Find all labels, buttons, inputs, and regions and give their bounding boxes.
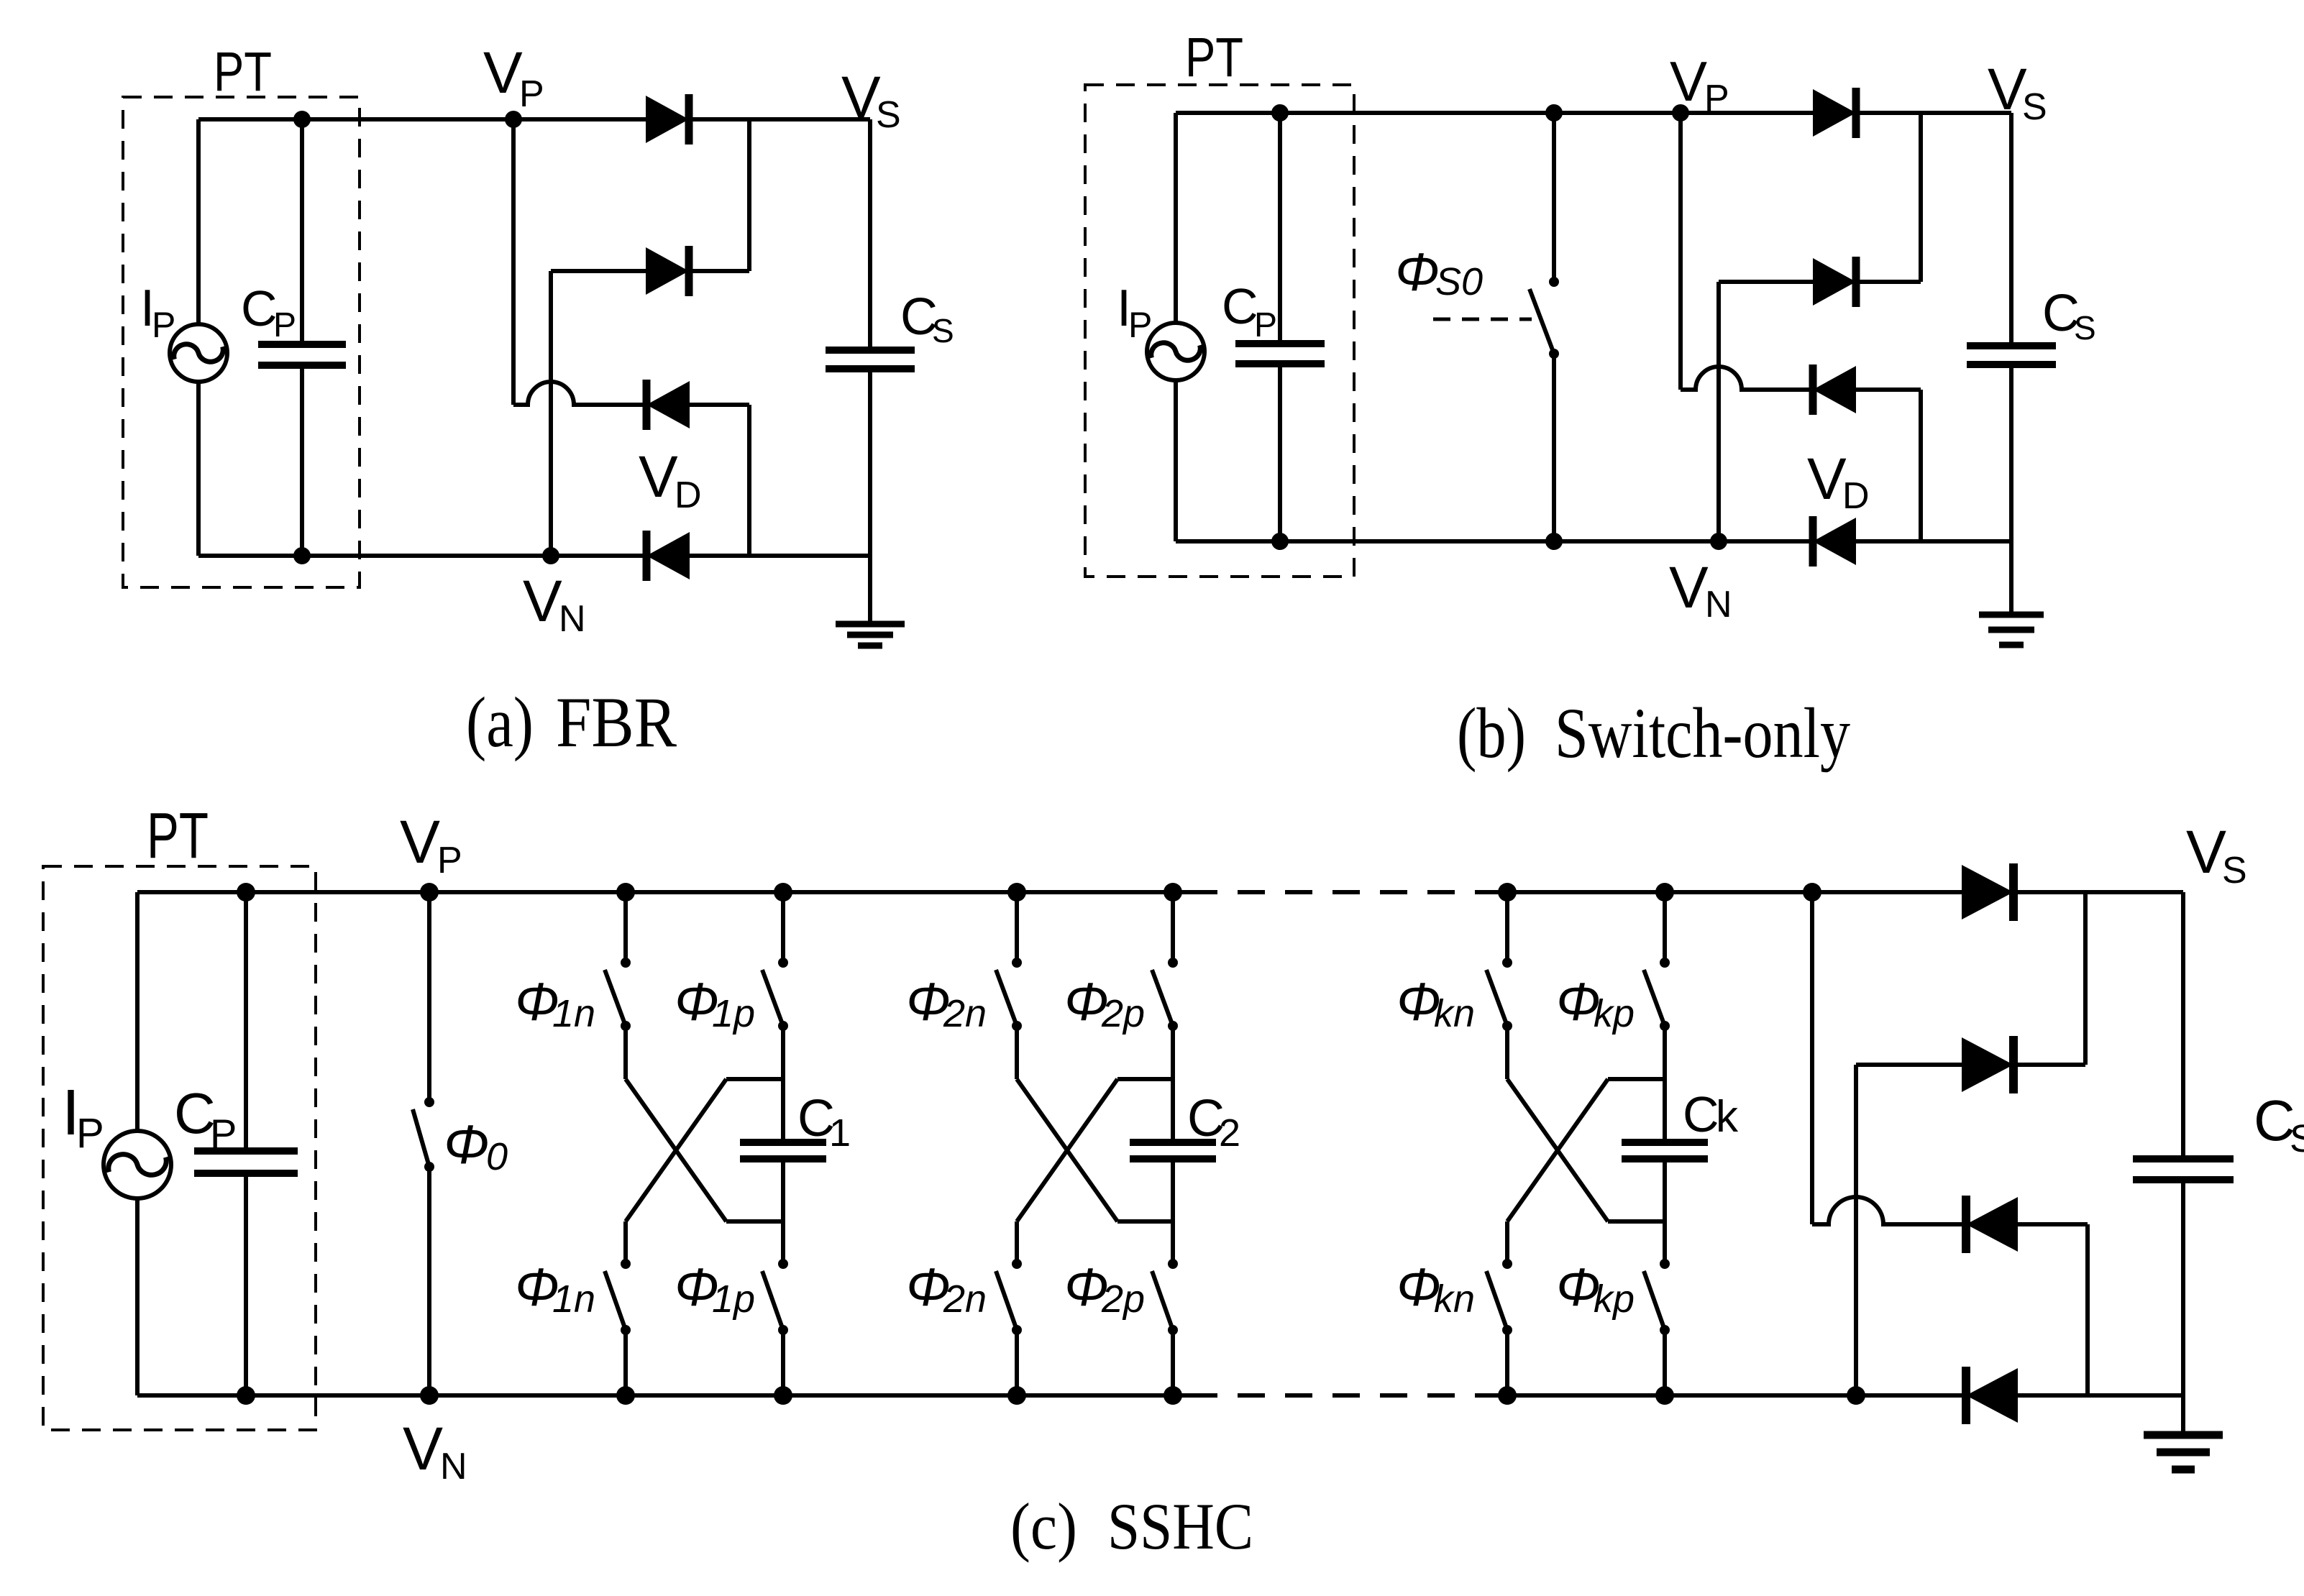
wire cross bottom horiz to cap 1 c [726, 1219, 783, 1224]
wire cross diagonal A 2 c [1017, 1079, 1117, 1221]
svg-text:PT: PT [214, 41, 272, 103]
label Vp b [1670, 50, 1729, 119]
label Cp b [1222, 278, 1277, 344]
node 1n bottom rail c [616, 1386, 635, 1405]
wire top rail b [1176, 111, 2011, 115]
wire D2 row b [1719, 280, 1921, 284]
node switch top b [1545, 104, 1563, 121]
svg-text:V: V [639, 444, 678, 510]
svg-text:(a): (a) [466, 682, 534, 762]
svg-text:P: P [437, 840, 462, 881]
label Vn c [403, 1415, 467, 1487]
wire n-col to lower switch 1 c [623, 1221, 628, 1264]
svg-text:S: S [932, 312, 954, 349]
wire cross bottom horiz to cap k c [1608, 1219, 1665, 1224]
label phi2n upper c [906, 972, 987, 1035]
circuit (a) FBR section [123, 40, 954, 762]
wire D2 row a [551, 269, 749, 273]
capacitor Cs a [826, 350, 915, 369]
wire Cp lead top a [300, 119, 304, 344]
wire cross top horiz to cap k c [1608, 1077, 1665, 1081]
diode D3 b [1813, 364, 1856, 415]
node PT bottom c [237, 1386, 255, 1405]
svg-text:2: 2 [1219, 1111, 1240, 1155]
diode D1 a [646, 94, 689, 145]
svg-text:kp: kp [1594, 1278, 1635, 1321]
caption (a) FBR [466, 682, 677, 762]
dashed control line phiS0 b [1433, 318, 1532, 321]
wire bottom rail a [198, 554, 870, 558]
wire bottom rail c left [137, 1393, 1190, 1398]
svg-text:P: P [519, 73, 544, 115]
wire Vp vertical a [511, 119, 516, 405]
node kp top rail c [1655, 883, 1674, 902]
svg-text:Switch-only: Switch-only [1555, 693, 1850, 773]
svg-text:P: P [152, 305, 175, 345]
svg-text:P: P [1704, 78, 1729, 119]
wire bottom rail b [1176, 539, 2011, 544]
diode D8 c [1966, 1367, 2018, 1424]
svg-text:2p: 2p [1101, 1278, 1145, 1321]
current source Ip b [1147, 323, 1204, 380]
switch phi2n upper c [996, 892, 1022, 1079]
switch phi2n lower c [996, 1259, 1022, 1395]
label Vs a [841, 65, 901, 136]
node Vp a [505, 111, 522, 128]
node PT bottom a [293, 547, 311, 564]
svg-text:SSHC: SSHC [1107, 1490, 1253, 1563]
label Vp a [483, 40, 544, 115]
capacitor Cp b [1235, 344, 1325, 364]
switch phi1p upper c [762, 892, 788, 1079]
svg-text:k: k [1716, 1092, 1739, 1142]
label Vs c [2186, 818, 2247, 891]
wire cap top lead k c [1663, 1079, 1667, 1142]
wire Vs vertical c [2181, 892, 2185, 1159]
wire Cp lead bottom c [244, 1173, 248, 1395]
node Vp c [420, 883, 439, 902]
wire D1-D2 junction vertical b [1919, 113, 1923, 282]
diode D3 a [646, 380, 690, 430]
node bottom rail bridge c [1847, 1386, 1865, 1405]
svg-text:V: V [523, 569, 562, 634]
svg-text:kn: kn [1434, 992, 1475, 1035]
svg-text:1p: 1p [712, 992, 755, 1035]
wire Ip lead bottom a [196, 380, 201, 556]
label Vd b [1807, 446, 1870, 517]
svg-text:N: N [1705, 584, 1732, 625]
svg-text:P: P [273, 306, 296, 344]
diode D7 c [1966, 1196, 2018, 1253]
wire cross top horiz to cap 2 c [1117, 1077, 1173, 1081]
PT dashed box a [123, 97, 360, 587]
label Vs b [1988, 57, 2047, 128]
capacitor Cs b [1967, 346, 2056, 364]
svg-text:P: P [76, 1110, 104, 1157]
capacitor Cs c [2133, 1159, 2234, 1180]
wire cap bottom lead k c [1663, 1159, 1667, 1221]
svg-text:V: V [2186, 818, 2226, 886]
node Vn a [542, 547, 559, 564]
ground c [2144, 1435, 2223, 1469]
svg-text:C: C [1222, 278, 1258, 334]
svg-text:V: V [1988, 57, 2027, 122]
diode D2 a [646, 246, 689, 296]
label Cs c [2254, 1088, 2304, 1160]
wire Vp-to-D3 with hop b [1681, 367, 1921, 390]
label C1 c [797, 1090, 851, 1155]
svg-text:1p: 1p [712, 1278, 755, 1321]
capacitor Cp a [258, 344, 346, 365]
wire D2 anode drop to Vn a [549, 271, 553, 556]
svg-text:PT: PT [147, 800, 209, 872]
svg-text:N: N [440, 1446, 467, 1487]
svg-text:1: 1 [829, 1111, 851, 1155]
label Ip c [62, 1077, 104, 1157]
node phi0 bottom c [420, 1386, 439, 1405]
node 2n top rail c [1007, 883, 1026, 902]
svg-text:S: S [876, 94, 901, 136]
wire Vs vertical a [868, 119, 872, 350]
wire Vp vertical b [1678, 113, 1683, 390]
label phi1n upper c [515, 972, 595, 1035]
svg-text:P: P [210, 1111, 237, 1156]
node 2p top rail c [1164, 883, 1182, 902]
capacitor Ck c [1622, 1142, 1708, 1159]
label Cs a [900, 288, 954, 349]
wire Cp lead bottom b [1278, 364, 1282, 541]
ground a [836, 624, 905, 646]
label phi2n lower c [906, 1257, 987, 1321]
wire cap bottom lead 2 c [1171, 1159, 1175, 1221]
diode D4 a [646, 531, 690, 581]
wire Cs bottom lead c [2181, 1180, 2185, 1395]
wire n-col to lower switch 2 c [1015, 1221, 1019, 1264]
switch phi1n lower c [605, 1259, 631, 1395]
label phikn upper c [1396, 972, 1475, 1035]
wire D7 anode vertical c [2085, 1224, 2090, 1395]
node 1n top rail c [616, 883, 635, 902]
switch phikn lower c [1486, 1259, 1512, 1395]
svg-text:D: D [675, 474, 702, 516]
wire D1-D2 junction vertical a [747, 119, 751, 271]
switch phiS0 b [1530, 113, 1559, 541]
label Ip a [140, 280, 175, 345]
diode D4 b [1813, 516, 1856, 567]
label phi2p upper c [1064, 972, 1145, 1035]
label phi1p upper c [675, 972, 755, 1035]
capacitor C1 c [740, 1142, 826, 1159]
svg-text:N: N [559, 598, 586, 640]
capacitor C2 c [1130, 1142, 1216, 1159]
label Cp c [174, 1081, 237, 1156]
PT dashed box b [1085, 85, 1354, 577]
switch phikn upper c [1486, 892, 1512, 1079]
wire Ip lead bottom b [1174, 380, 1178, 541]
wire p-col to lower switch 2 c [1171, 1221, 1175, 1264]
switch phi1n upper c [605, 892, 631, 1079]
wire D6 left vertical c [1854, 1065, 1858, 1395]
svg-text:D: D [1842, 475, 1870, 517]
node 2n bottom rail c [1007, 1386, 1026, 1405]
label phikp lower c [1556, 1257, 1635, 1321]
label Ip b [1117, 280, 1152, 345]
svg-text:kn: kn [1434, 1278, 1475, 1321]
wire cross diagonal B k c [1507, 1079, 1608, 1221]
node PT top c [237, 883, 255, 902]
node 1p bottom rail c [774, 1386, 792, 1405]
label phi1p lower c [675, 1257, 755, 1321]
wire Cp lead top b [1278, 113, 1282, 344]
svg-text:V: V [1669, 555, 1709, 620]
svg-text:(b): (b) [1457, 693, 1526, 773]
wire p-col to lower switch k c [1663, 1221, 1667, 1264]
svg-text:S: S [2222, 850, 2247, 891]
wire cap bottom lead 1 c [781, 1159, 785, 1221]
label Vn a [523, 569, 586, 640]
node Vp b [1672, 104, 1689, 121]
svg-text:V: V [1807, 446, 1847, 512]
svg-text:2p: 2p [1101, 992, 1145, 1035]
svg-text:S: S [2022, 86, 2047, 128]
svg-text:V: V [403, 1415, 443, 1482]
wire Cp lead top c [244, 892, 248, 1151]
switch phi2p lower c [1152, 1259, 1178, 1395]
diode D5 c [1962, 863, 2013, 921]
label phikp upper c [1556, 972, 1635, 1035]
node switch bottom b [1545, 533, 1563, 550]
svg-text:V: V [841, 65, 881, 130]
wire top rail c left [137, 890, 1190, 894]
wire Ip lead top b [1174, 113, 1178, 323]
label phikn lower c [1396, 1257, 1475, 1321]
diode D1 b [1813, 88, 1856, 138]
switch phikp lower c [1644, 1259, 1670, 1395]
label Cs b [2042, 285, 2096, 347]
wire D2 anode drop to Vn b [1716, 282, 1721, 541]
svg-text:C: C [241, 280, 278, 336]
node kn top rail c [1498, 883, 1517, 902]
label C2 c [1187, 1090, 1240, 1155]
label phi0 c [444, 1114, 508, 1178]
node 1p top rail c [774, 883, 792, 902]
wire top rail c right [1507, 890, 2183, 894]
label Ck c [1683, 1086, 1739, 1142]
node bridge junction top c [1803, 883, 1821, 902]
svg-text:P: P [1128, 305, 1152, 345]
svg-text:V: V [483, 40, 523, 106]
caption (c) SSHC [1010, 1490, 1253, 1563]
svg-text:FBR: FBR [556, 682, 677, 762]
wire D7 row with hop c [1812, 1197, 2088, 1224]
wire ground lead c [2181, 1395, 2185, 1432]
wire cap top lead 2 c [1171, 1079, 1175, 1142]
wire ground lead b [2009, 541, 2013, 612]
node kp bottom rail c [1655, 1386, 1674, 1405]
wire p-col to lower switch 1 c [781, 1221, 785, 1264]
diode D6 c [1962, 1036, 2013, 1093]
label phiS0 b [1395, 242, 1483, 303]
svg-text:V: V [400, 808, 440, 876]
node 2p bottom rail c [1164, 1386, 1182, 1405]
wire cross diagonal A k c [1507, 1079, 1608, 1221]
node PT bottom b [1271, 533, 1289, 550]
svg-text:C: C [1683, 1086, 1719, 1142]
circuit (b) Switch-only section [1085, 27, 2096, 773]
wire D3 anode vertical b [1919, 390, 1923, 541]
wire top rail c dashed [1190, 890, 1507, 894]
switch phi0 c [413, 892, 434, 1395]
wire D6 row c [1856, 1063, 2085, 1067]
svg-text:V: V [1670, 50, 1707, 113]
label Vp c [400, 808, 462, 881]
svg-text:0: 0 [486, 1135, 508, 1178]
current source Ip a [170, 324, 227, 382]
caption (b) Switch-only [1457, 693, 1850, 773]
label Vn b [1669, 555, 1732, 625]
svg-text:1n: 1n [552, 992, 595, 1035]
wire Cp lead bottom a [300, 365, 304, 556]
node PT top a [293, 111, 311, 128]
wire cross diagonal B 2 c [1017, 1079, 1117, 1221]
node kn bottom rail c [1498, 1386, 1517, 1405]
wire cross top horiz to cap 1 c [726, 1077, 783, 1081]
svg-text:P: P [1254, 306, 1277, 344]
PT dashed box c [43, 866, 316, 1430]
wire Ip lead bottom c [135, 1197, 140, 1395]
wire Ip lead top c [135, 892, 140, 1132]
label Vd a [639, 444, 702, 516]
switch phikp upper c [1644, 892, 1670, 1079]
wire Vp-to-D3 with hop a [513, 382, 749, 405]
capacitor Cp c [194, 1151, 298, 1173]
label Cp a [241, 280, 296, 344]
diode D2 b [1813, 257, 1856, 307]
wire top rail a [198, 117, 870, 121]
svg-text:S: S [2074, 309, 2096, 347]
svg-text:2n: 2n [943, 1278, 987, 1321]
label phi2p lower c [1064, 1257, 1145, 1321]
wire Cs bottom lead a [868, 369, 872, 556]
svg-text:1n: 1n [552, 1278, 595, 1321]
wire Cs bottom lead b [2009, 364, 2013, 541]
wire cross diagonal A 1 c [626, 1079, 726, 1221]
svg-text:Φ: Φ [1395, 242, 1440, 302]
wire cross diagonal B 1 c [626, 1079, 726, 1221]
wire cap top lead 1 c [781, 1079, 785, 1142]
svg-text:2n: 2n [943, 992, 987, 1035]
wire D3 anode vertical a [747, 405, 751, 556]
svg-text:(c): (c) [1010, 1490, 1077, 1563]
wire bridge junction vertical c [1810, 892, 1814, 1224]
svg-text:PT: PT [1185, 27, 1243, 88]
wire n-col to lower switch k c [1505, 1221, 1509, 1264]
current source Ip c [104, 1131, 171, 1198]
ground b [1979, 615, 2044, 645]
label phi1n lower c [515, 1257, 595, 1321]
wire bottom rail c dashed [1190, 1393, 1507, 1398]
svg-text:Φ: Φ [444, 1114, 490, 1175]
wire Ip lead top a [196, 119, 201, 326]
wire D6 right vertical c [2083, 892, 2088, 1065]
wire ground lead a [868, 556, 872, 621]
node Vn b [1710, 533, 1727, 550]
wire bottom rail c right [1507, 1393, 2183, 1398]
switch phi2p upper c [1152, 892, 1178, 1079]
node PT top b [1271, 104, 1289, 121]
wire Vs vertical b [2009, 113, 2013, 346]
circuit (c) SSHC section [43, 800, 2304, 1563]
svg-text:kp: kp [1594, 992, 1635, 1035]
wire cross bottom horiz to cap 2 c [1117, 1219, 1173, 1224]
svg-text:S: S [2290, 1117, 2304, 1160]
switch phi1p lower c [762, 1259, 788, 1395]
svg-text:S0: S0 [1435, 260, 1483, 303]
